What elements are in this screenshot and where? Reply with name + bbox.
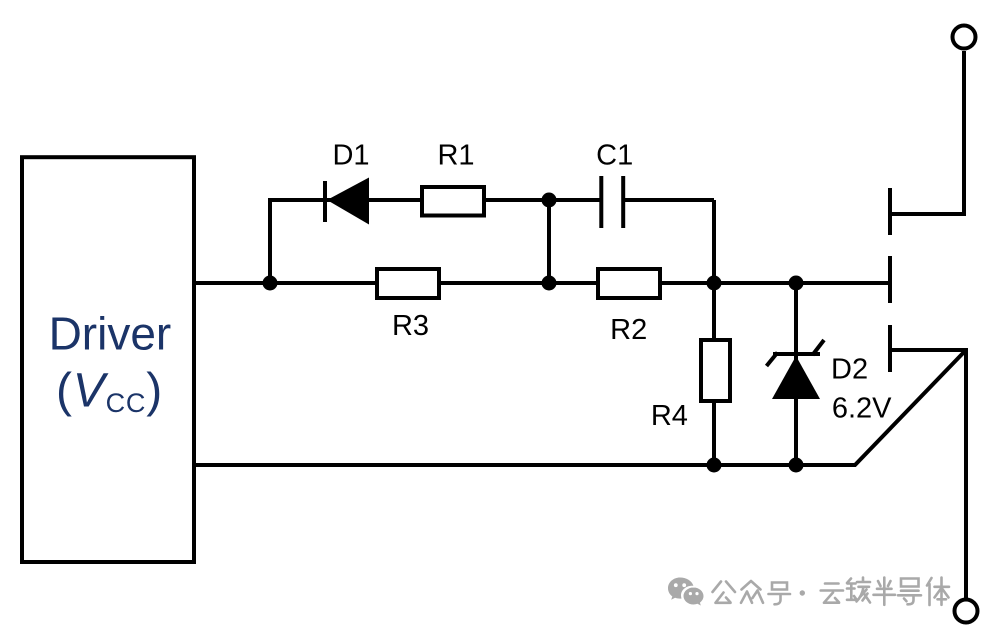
driver label text [49,308,172,419]
resistor R1 [422,187,484,216]
junction node zener bottom [789,458,804,473]
resistor R2 [598,269,660,298]
char gong [713,582,736,603]
char yun [821,584,843,603]
watermark text (drawn strokes) [713,578,950,606]
source terminal circle [955,600,978,623]
char hao [769,583,791,605]
svg-text:R3: R3 [392,310,429,342]
char ti [927,578,949,606]
svg-text:R1: R1 [437,140,474,172]
resistor R4 [701,340,730,401]
MOSFET Q1 channel dash top [888,188,892,235]
svg-text:C1: C1 [596,140,633,172]
wire drain lead [890,51,964,214]
svg-text:6.2V: 6.2V [832,393,892,425]
diode D1 triangle [327,178,369,225]
driver box U1 [22,157,194,562]
resistor R3 [377,269,439,298]
zener D2 triangle [772,356,820,399]
MOSFET Q1 channel dash middle (gate) [888,256,892,303]
junction node right mid [707,276,722,291]
wire bottom rail [196,350,966,465]
wire R4 branch vertical [712,283,716,465]
capacitor C1 left plate [599,176,603,228]
char dao [898,579,921,605]
wire top rail left segment [268,198,601,202]
zener D2 left tick [767,353,778,367]
wire vertical right C1 branch down [712,200,716,283]
drain terminal circle [953,26,976,49]
wire zener branch vertical [794,283,798,465]
wire vertical branch up from left node [268,200,272,283]
char jia [847,578,870,603]
junction node mid [542,276,557,291]
svg-text:R4: R4 [651,400,688,432]
wire top rail right of C1 [624,198,714,202]
wire middle rail driver to gate [196,281,888,285]
junction node top mid [542,193,557,208]
zener D2 cathode bar [773,352,820,356]
capacitor C1 right plate [621,176,625,228]
junction node left [263,276,278,291]
junction node R4 bottom [707,458,722,473]
svg-text:D1: D1 [332,140,369,172]
char zhong [741,581,763,603]
wire vertical mid node to top node [547,200,551,283]
svg-text:R2: R2 [610,314,647,346]
svg-text:Driver: Driver [49,308,172,360]
diode D1 cathode bar [323,181,327,222]
separator dot [800,590,805,595]
svg-text:D2: D2 [831,354,868,386]
MOSFET Q1 channel dash bottom [888,325,892,372]
watermark wechat icon [668,578,703,606]
char ban [874,578,896,605]
junction node zener top [789,276,804,291]
wire source lead [890,350,966,599]
zener D2 right tick [813,340,825,355]
